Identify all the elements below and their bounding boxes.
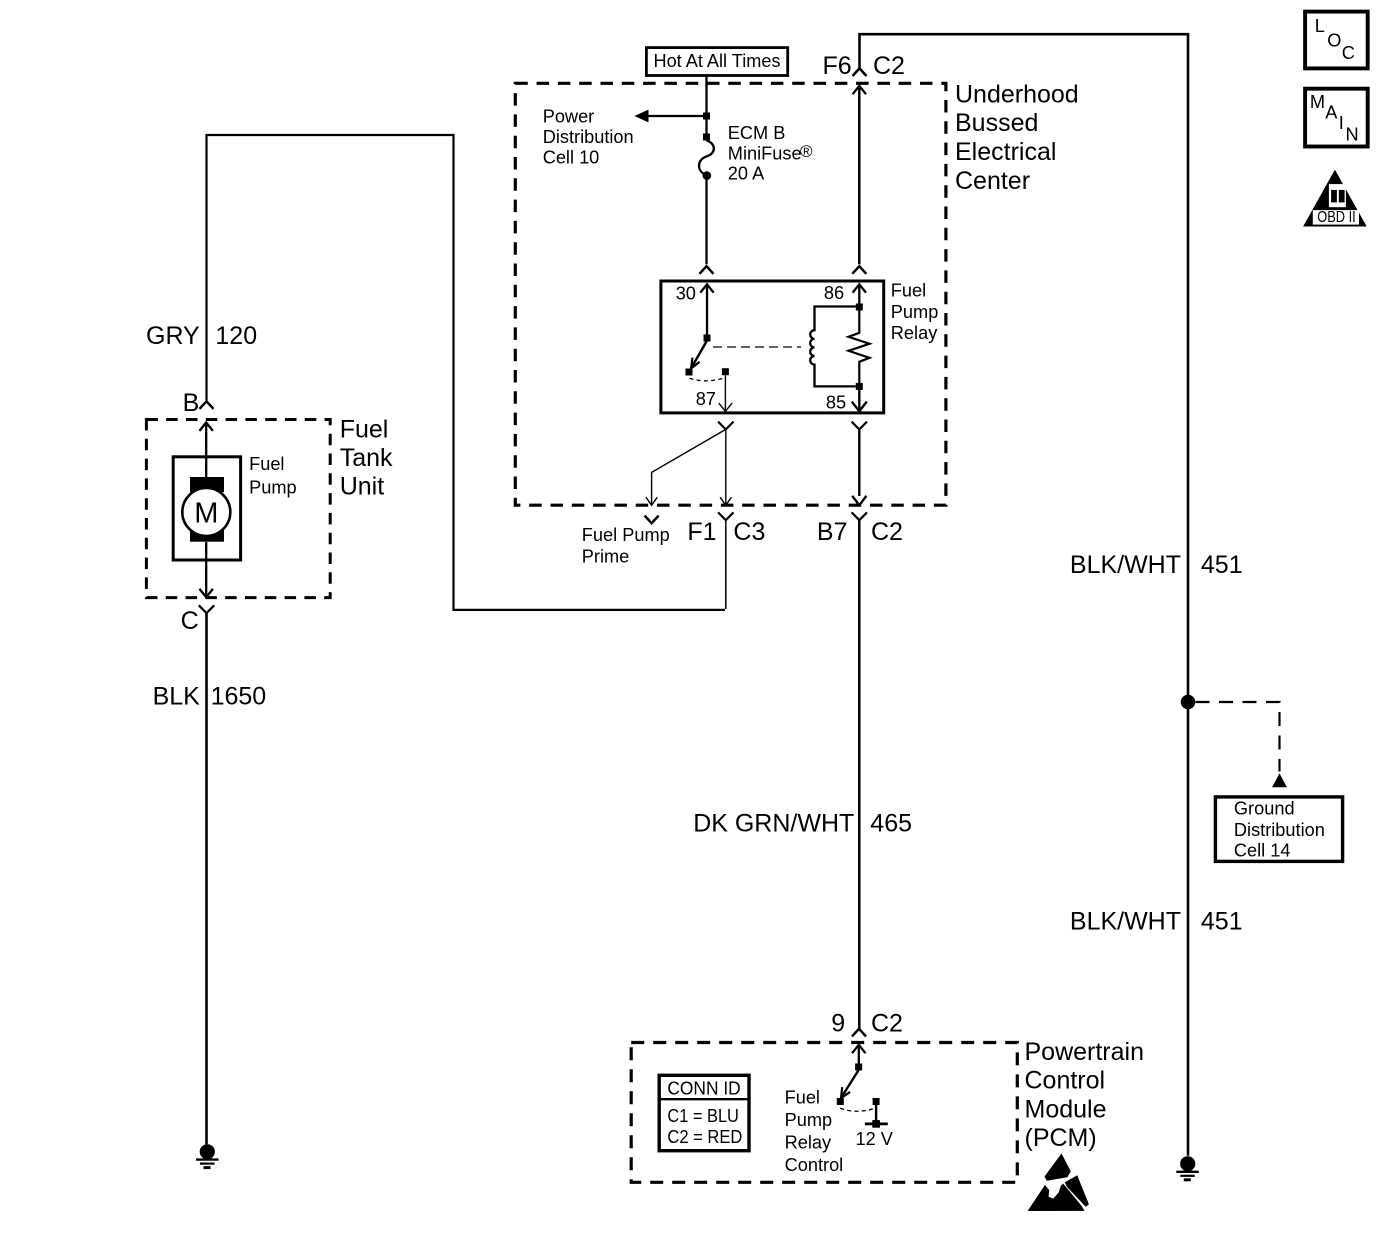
- wire B to motor: [205, 423, 207, 478]
- Underhood Bussed Electrical Center dashed box: [515, 83, 946, 505]
- Y connector below relay pin 87: [718, 422, 733, 430]
- svg-text:L: L: [1315, 16, 1325, 36]
- svg-text:Prime: Prime: [582, 547, 630, 567]
- svg-text:F6: F6: [823, 52, 852, 80]
- svg-text:DK GRN/WHT: DK GRN/WHT: [693, 810, 854, 838]
- svg-text:Fuel: Fuel: [340, 415, 389, 443]
- svg-text:Pump: Pump: [249, 477, 297, 497]
- arrow at BEC bottom edge (B7): [852, 496, 866, 505]
- svg-text:F1: F1: [687, 518, 716, 546]
- dashed link switch to coil: [713, 346, 801, 348]
- svg-text:®: ®: [800, 142, 813, 161]
- svg-text:Relay: Relay: [785, 1133, 832, 1153]
- svg-text:Tank: Tank: [340, 444, 393, 472]
- svg-text:Ground: Ground: [1234, 799, 1295, 819]
- svg-text:20 A: 20 A: [728, 164, 765, 184]
- dashed actuation arc: [690, 378, 726, 381]
- LOC symbol: [1305, 12, 1368, 69]
- svg-text:87: 87: [696, 389, 716, 409]
- svg-text:M: M: [194, 498, 218, 530]
- fuse ECM B MiniFuse 20 A: [699, 134, 714, 180]
- CONN ID header divider: [661, 1098, 747, 1100]
- svg-text:Control: Control: [1025, 1067, 1106, 1095]
- relay coil suppression resistor: [849, 307, 870, 386]
- Y connector B7/C2: [852, 512, 867, 520]
- svg-text:C: C: [181, 607, 199, 635]
- svg-text:Powertrain: Powertrain: [1025, 1038, 1145, 1066]
- arrow out of fuel tank unit at C: [200, 589, 213, 597]
- PCM switch right contact: [873, 1098, 880, 1105]
- svg-text:120: 120: [215, 322, 257, 350]
- relay switch arm: [691, 341, 707, 369]
- chevron connector 9/C2: [852, 1029, 866, 1037]
- Fuel Tank Unit dashed box: [146, 420, 330, 598]
- arrow into fuel tank unit at B: [200, 423, 213, 431]
- svg-text:N: N: [1346, 125, 1359, 145]
- svg-text:451: 451: [1201, 908, 1243, 936]
- svg-text:C2: C2: [873, 52, 905, 80]
- relay pin 85 line and arrow: [858, 386, 860, 410]
- svg-text:Module: Module: [1025, 1095, 1107, 1123]
- svg-text:MiniFuse: MiniFuse: [728, 143, 802, 163]
- svg-text:BLK/WHT: BLK/WHT: [1070, 551, 1181, 579]
- wire BLK/WHT 451 from F6/C2 over and down to ground: [860, 34, 1189, 1156]
- wire F6 to relay pin 86: [858, 86, 861, 264]
- arrow to Power Distribution Cell 10: [645, 115, 707, 117]
- ESD symbol: [1028, 1154, 1089, 1212]
- connector C Y symbol: [199, 605, 214, 613]
- fuel pump motor box: [173, 457, 240, 560]
- chevron connector F6/C2: [853, 68, 867, 76]
- CONN ID table box: [659, 1075, 749, 1150]
- svg-text:Underhood: Underhood: [955, 80, 1079, 108]
- Y connector F1/C3: [718, 512, 733, 520]
- svg-text:O: O: [1327, 30, 1341, 50]
- svg-text:Control: Control: [785, 1155, 844, 1175]
- svg-text:A: A: [1325, 103, 1338, 123]
- arrow at BEC bottom edge (F1): [720, 497, 731, 505]
- svg-text:30: 30: [676, 284, 696, 304]
- svg-text:C2: C2: [871, 518, 903, 546]
- wire GRY 120 from fuel pump B up and over to connector C3 terminal F1: [207, 135, 725, 610]
- fuel pump motor M1: [182, 477, 230, 542]
- svg-text:Power: Power: [543, 107, 595, 127]
- svg-text:Fuel: Fuel: [249, 454, 284, 474]
- wire motor to C: [205, 542, 207, 597]
- relay pin 87 line and arrow: [724, 375, 726, 411]
- wire BLK 1650: [205, 613, 208, 1144]
- PCM switch common node: [855, 1064, 862, 1071]
- svg-text:Cell 14: Cell 14: [1234, 840, 1291, 860]
- svg-text:(PCM): (PCM): [1025, 1124, 1097, 1152]
- OBD II symbol: [1303, 170, 1367, 227]
- svg-text:12 V: 12 V: [856, 1129, 894, 1149]
- relay pin 86 arrow and line: [853, 284, 866, 292]
- junction node to ground distribution: [1181, 695, 1196, 710]
- wire F1 stem down to GRY run: [725, 520, 727, 609]
- relay switch common node: [704, 335, 711, 342]
- svg-text:GRY: GRY: [146, 322, 200, 350]
- svg-text:Center: Center: [955, 167, 1030, 195]
- wire to PCM switch: [858, 1045, 860, 1064]
- svg-text:I: I: [1339, 113, 1344, 133]
- triangle off-page connector: [1272, 773, 1287, 787]
- arrow below PCM top edge: [852, 1045, 865, 1053]
- Y connector below relay pin 85: [852, 422, 867, 430]
- svg-text:Fuel: Fuel: [785, 1087, 820, 1107]
- svg-text:Electrical: Electrical: [955, 138, 1056, 166]
- Hot At All Times box: [646, 48, 787, 76]
- chevron at relay pin 86: [852, 266, 866, 274]
- svg-text:Cell 10: Cell 10: [543, 148, 600, 168]
- relay pin 30 arrow and line: [700, 284, 713, 292]
- svg-text:C2 = RED: C2 = RED: [667, 1127, 742, 1147]
- svg-text:Distribution: Distribution: [1234, 820, 1325, 840]
- svg-text:Distribution: Distribution: [543, 127, 634, 147]
- svg-text:CONN ID: CONN ID: [667, 1078, 740, 1098]
- svg-text:Unit: Unit: [340, 473, 385, 501]
- svg-text:465: 465: [870, 810, 912, 838]
- dashed actuation arc PCM: [840, 1108, 876, 1112]
- wire fork 87 to fuel pump prime: [652, 429, 726, 504]
- svg-text:C1 = BLU: C1 = BLU: [667, 1106, 739, 1126]
- node coil bottom: [856, 383, 863, 390]
- svg-text:Hot At All Times: Hot At All Times: [654, 51, 781, 71]
- dashed stub to ground distribution: [1196, 702, 1280, 772]
- svg-text:OBD II: OBD II: [1317, 209, 1356, 226]
- ground G107 (left): [196, 1144, 219, 1167]
- wire fuse to relay pin 30: [705, 176, 707, 265]
- relay switch right contact pin 87: [722, 368, 729, 375]
- wire fork 87 to F1: [725, 429, 727, 504]
- svg-text:BLK/WHT: BLK/WHT: [1070, 908, 1181, 936]
- fuel pump relay box: [661, 281, 884, 413]
- svg-text:M: M: [1310, 92, 1325, 112]
- relay switch left contact: [686, 369, 693, 376]
- wire DK GRN/WHT 465: [858, 520, 861, 1028]
- svg-text:C3: C3: [733, 518, 765, 546]
- svg-text:Fuel Pump: Fuel Pump: [582, 525, 670, 545]
- chevron at relay pin 30: [700, 266, 714, 274]
- svg-text:C: C: [1342, 43, 1355, 63]
- Ground Distribution Cell 14 box: [1215, 797, 1342, 862]
- MAIN symbol: [1305, 89, 1368, 147]
- svg-text:Pump: Pump: [891, 302, 939, 322]
- PCM switch left contact: [837, 1098, 844, 1105]
- svg-text:C2: C2: [871, 1010, 903, 1038]
- relay coil: [810, 307, 856, 387]
- node at power distribution tap: [703, 113, 710, 120]
- svg-text:BLK: BLK: [153, 682, 201, 710]
- svg-text:86: 86: [824, 283, 844, 303]
- svg-text:451: 451: [1201, 551, 1243, 579]
- chevron fuel pump prime stub: [645, 516, 659, 524]
- Powertrain Control Module dashed box: [631, 1043, 1017, 1183]
- svg-text:B: B: [183, 389, 200, 417]
- svg-text:B7: B7: [817, 518, 848, 546]
- svg-text:Fuel: Fuel: [891, 281, 926, 301]
- arrow at BEC bottom edge (prime): [646, 497, 657, 505]
- node coil top: [856, 304, 863, 311]
- svg-text:85: 85: [826, 393, 846, 413]
- connector B chevron (fuel tank unit): [200, 401, 214, 409]
- PCM switch arm: [841, 1070, 859, 1098]
- svg-text:ECM B: ECM B: [728, 123, 786, 143]
- wire from Hot At All Times down to fuse: [705, 76, 707, 135]
- arrow below BEC top edge at F6: [853, 86, 866, 94]
- svg-text:9: 9: [831, 1010, 845, 1038]
- svg-text:1650: 1650: [211, 682, 267, 710]
- 12 V supply symbol: [865, 1105, 888, 1128]
- ground G103 (right): [1176, 1156, 1199, 1180]
- svg-text:Relay: Relay: [891, 323, 938, 343]
- wire 85 to B7: [858, 429, 860, 496]
- svg-text:Pump: Pump: [785, 1110, 833, 1130]
- svg-text:Bussed: Bussed: [955, 109, 1038, 137]
